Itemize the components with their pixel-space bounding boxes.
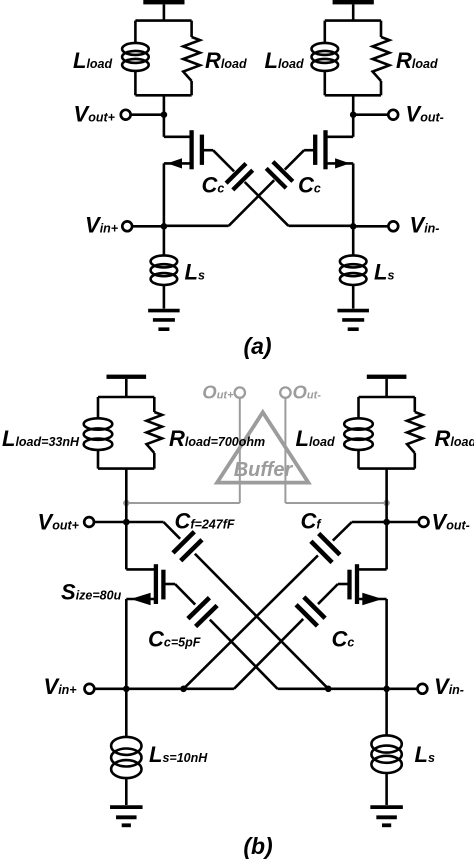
svg-text:Vin-: Vin-	[410, 213, 440, 238]
node Vin- (a)	[350, 221, 398, 231]
svg-text:Vout+: Vout+	[38, 510, 80, 535]
VDD supply bar (b left)	[107, 375, 147, 397]
svg-text:(a): (a)	[243, 333, 271, 359]
node Vin+ (b)	[85, 684, 235, 694]
svg-text:Out+: Out+	[202, 382, 234, 403]
node Vout+ (b)	[84, 517, 163, 527]
svg-text:(b): (b)	[243, 833, 272, 859]
tank box wiring (a right)	[325, 21, 381, 137]
inductor Lload (b left)	[84, 418, 113, 450]
svg-text:Rload: Rload	[396, 48, 438, 73]
svg-text:Lload: Lload	[73, 48, 113, 73]
wire + capacitor Cc (b, right gate to Vin+)	[234, 584, 338, 689]
inductor Ls (a right)	[340, 226, 367, 308]
inductor Ls (a left)	[151, 226, 178, 308]
transistor M1 (b left)	[126, 522, 175, 689]
wire + capacitor Cf (b, Vout+ to Vin-)	[164, 522, 329, 689]
svg-text:Vin-: Vin-	[434, 674, 464, 699]
svg-text:Cc: Cc	[298, 173, 321, 198]
resistor Rload (b right)	[407, 412, 423, 453]
svg-text:Vout+: Vout+	[74, 102, 116, 127]
svg-text:Ls: Ls	[185, 260, 205, 285]
svg-text:Rload: Rload	[205, 48, 247, 73]
svg-text:Lload: Lload	[296, 426, 336, 451]
svg-text:Vin+: Vin+	[85, 213, 119, 238]
ground (b right)	[370, 807, 403, 825]
inductor Ls (b left)	[111, 689, 141, 805]
svg-text:Cc: Cc	[202, 173, 225, 198]
tank box wiring (b right)	[359, 397, 415, 522]
VDD supply bar (a left)	[143, 0, 184, 21]
wire + capacitor Cf (b, Vout- to Vin+)	[184, 522, 352, 689]
svg-text:Cf=247fF: Cf=247fF	[175, 508, 235, 533]
transistor M2 (a right)	[304, 130, 353, 226]
resistor Rload (a right)	[373, 37, 390, 81]
node Vout+ (a)	[121, 110, 167, 120]
resistor Rload (b left)	[147, 412, 163, 453]
node Vin+ (a)	[122, 221, 167, 231]
ground (b left)	[110, 807, 143, 825]
transistor M1 (a left)	[164, 130, 213, 226]
svg-text:Ls: Ls	[374, 260, 394, 285]
buffer output net wire (gray, left)	[123, 398, 240, 506]
wire + capacitor Cc (b, left gate to Vin-)	[175, 584, 278, 689]
svg-text:Lload=33nH: Lload=33nH	[2, 426, 80, 451]
ground (a left)	[148, 311, 180, 330]
svg-text:Size=80u: Size=80u	[61, 580, 122, 605]
svg-text:Cc=5pF: Cc=5pF	[148, 627, 201, 652]
buffer output net wire (gray, right)	[285, 398, 389, 506]
transistor M2 (b right)	[338, 522, 387, 689]
node Vin- (b)	[278, 684, 428, 694]
node Vout- (b)	[352, 517, 429, 527]
VDD supply bar (a right)	[333, 0, 374, 21]
terminal Out-	[280, 387, 290, 397]
node Vout- (a)	[350, 110, 398, 120]
svg-text:Ls: Ls	[415, 742, 435, 767]
tank box wiring (b left)	[98, 397, 154, 522]
svg-text:Vout-: Vout-	[406, 102, 444, 127]
inductor Lload (a left)	[122, 43, 149, 71]
terminal Out+	[235, 387, 245, 397]
svg-text:Lload: Lload	[265, 48, 305, 73]
svg-text:Buffer: Buffer	[234, 459, 294, 481]
buffer U1 triangle	[217, 412, 308, 482]
svg-text:Ls=10nH: Ls=10nH	[149, 742, 208, 767]
ground (a right)	[337, 311, 369, 330]
svg-text:Vout-: Vout-	[432, 510, 470, 535]
wire + capacitor Cc (a right gate to Vin+)	[164, 150, 304, 226]
resistor Rload (a left)	[183, 37, 200, 81]
svg-text:Out-: Out-	[293, 382, 322, 403]
wire + capacitor Cc (a left gate to Vin-)	[213, 150, 353, 226]
inductor Ls (b right)	[371, 689, 401, 805]
inductor Lload (a right)	[312, 43, 339, 71]
svg-text:Cf: Cf	[301, 508, 323, 533]
svg-text:Vin+: Vin+	[44, 674, 78, 699]
VDD supply bar (b right)	[367, 375, 407, 397]
tank box wiring (a left)	[135, 21, 191, 137]
inductor Lload (b right)	[344, 418, 373, 450]
svg-text:Rload: Rload	[435, 426, 474, 451]
svg-text:Cc: Cc	[332, 627, 355, 652]
